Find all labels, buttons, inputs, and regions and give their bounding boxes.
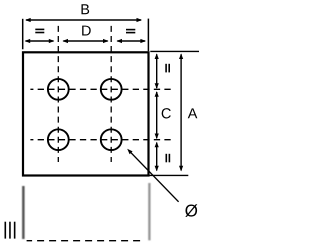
label = right bbox=[126, 29, 135, 31]
extension line above top-right corner bbox=[147, 19, 149, 52]
label II upper bbox=[165, 64, 167, 73]
hole bottom-left bbox=[48, 129, 69, 150]
hole top-right bbox=[101, 79, 122, 100]
label A bbox=[188, 108, 198, 118]
extension line bottom-right horizontal bbox=[149, 174, 188, 176]
label = left bbox=[35, 29, 44, 31]
extension line top-right horizontal bbox=[150, 50, 199, 52]
plate outline bbox=[23, 52, 149, 175]
dimension line B bbox=[26, 19, 141, 21]
lower view right edge (gray) bbox=[148, 183, 150, 240]
dimension arrow D bbox=[63, 40, 107, 42]
dimension arrow II lower bbox=[156, 143, 158, 171]
center line row 2 bbox=[30, 139, 171, 141]
dimension arrow A bbox=[180, 54, 182, 170]
center line column 2 bbox=[110, 26, 112, 162]
center line column 1 bbox=[57, 26, 59, 162]
label B bbox=[81, 4, 89, 14]
lower view hidden line (dashed) bbox=[27, 240, 145, 242]
leader line for diameter bbox=[130, 152, 179, 202]
dimension arrow C bbox=[156, 92, 158, 138]
dimension arrow II upper bbox=[156, 54, 158, 88]
hole bottom-right bbox=[101, 129, 122, 150]
extension line above top-left corner bbox=[22, 19, 24, 50]
dimension arrow = right bbox=[117, 40, 145, 42]
label II lower bbox=[166, 154, 168, 163]
lower view left edge (gray) bbox=[22, 186, 25, 239]
center line row 1 bbox=[30, 88, 171, 90]
label D bbox=[82, 26, 91, 36]
hole top-left bbox=[48, 79, 69, 100]
label diameter bbox=[185, 204, 197, 217]
dimension arrow = left bbox=[26, 40, 54, 42]
label C bbox=[162, 108, 171, 118]
label ||| bbox=[5, 222, 7, 239]
